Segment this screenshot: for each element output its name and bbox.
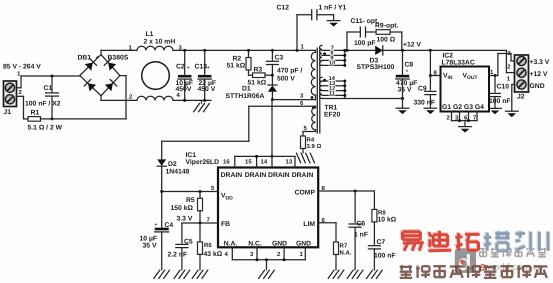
wire VOUT to J2 pin3 — [489, 54, 515, 78]
svg-text:FB: FB — [221, 221, 230, 228]
wire secondary return — [345, 97, 404, 108]
wire secondary to D3 — [345, 49, 375, 51]
watermark subtitle dark red — [400, 265, 412, 278]
svg-text:1N4148: 1N4148 — [166, 169, 190, 176]
svg-text:GND: GND — [272, 241, 287, 248]
text NA NC GND GND — [224, 241, 311, 248]
node C13 bottom — [203, 99, 206, 102]
svg-text:N.A.: N.A. — [224, 241, 238, 248]
node AC1 junction — [51, 75, 54, 78]
resistor R8 — [372, 191, 377, 244]
svg-text:C12: C12 — [277, 5, 290, 12]
svg-text:R6: R6 — [204, 242, 212, 249]
bridge diode bottom-left — [84, 79, 96, 91]
transformer TR1 secondary winding lower — [320, 77, 322, 98]
output connector J2 — [515, 55, 529, 92]
svg-text:R2: R2 — [233, 56, 242, 63]
resistor R1 — [28, 117, 41, 122]
svg-text:2 x 10 mH: 2 x 10 mH — [144, 39, 176, 46]
svg-text:51 kΩ: 51 kΩ — [227, 63, 246, 70]
wire aux pin6 line — [162, 106, 316, 141]
ground R7 — [328, 270, 344, 278]
svg-text:150 kΩ: 150 kΩ — [171, 205, 194, 212]
svg-text:DRAIN: DRAIN — [292, 172, 314, 179]
wire R1 to bridge AC2 — [41, 76, 127, 119]
transformer TR1 secondary winding upper — [320, 45, 322, 65]
svg-text:D1: D1 — [242, 86, 251, 93]
svg-text:15: 15 — [245, 158, 252, 165]
ground R4 — [297, 153, 315, 163]
drain bus top — [235, 155, 295, 168]
earth ground C10 — [489, 108, 502, 114]
wire R3 to clamp node — [265, 74, 272, 76]
capacitor C8 — [396, 50, 410, 98]
ground primary bulk — [194, 100, 210, 111]
input connector J1 — [4, 81, 17, 107]
wire J1 pin2 to R1 — [17, 96, 29, 119]
bridge diode bottom-right — [105, 79, 117, 91]
bridge rectifier DB1 diamond — [80, 55, 120, 96]
node C2 top — [183, 49, 186, 52]
node primary top C12 branch — [296, 49, 299, 52]
capacitor C9 — [425, 50, 436, 107]
svg-text:GND: GND — [296, 241, 311, 248]
snubber C11 R9 — [347, 27, 402, 50]
IC U2 L78L33AC box — [441, 67, 490, 112]
node clamp — [271, 74, 274, 77]
svg-text:C6: C6 — [357, 221, 366, 228]
wire L1 pin4 return — [173, 99, 211, 101]
svg-text:+: + — [207, 65, 210, 71]
svg-text:C4: C4 — [165, 222, 174, 229]
IC2 bottom stubs — [452, 112, 478, 127]
svg-text:1 nF: 1 nF — [354, 232, 368, 239]
svg-text:C2: C2 — [176, 64, 185, 71]
svg-text:L1: L1 — [146, 31, 154, 38]
capacitor C6 — [349, 191, 361, 270]
svg-text:IC2: IC2 — [443, 53, 454, 60]
node snubber left — [346, 49, 349, 52]
inductor L1 top winding — [137, 46, 173, 50]
svg-text:1 nF / Y1: 1 nF / Y1 — [319, 5, 347, 12]
svg-text:C8: C8 — [405, 62, 414, 69]
svg-text:C5: C5 — [184, 238, 193, 245]
svg-text:L78L33AC: L78L33AC — [442, 60, 475, 67]
resistor R2 — [246, 50, 253, 75]
svg-text:C13: C13 — [195, 64, 208, 71]
svg-text:EF20: EF20 — [324, 112, 340, 119]
text DRAIN pins — [221, 172, 314, 179]
svg-text:N.A.: N.A. — [340, 249, 352, 256]
svg-text:500 V: 500 V — [277, 76, 295, 83]
svg-text:C7: C7 — [377, 239, 386, 246]
IC U1 Viper26LD box — [218, 168, 318, 248]
resistor R5 — [198, 192, 203, 224]
earth ground return — [396, 108, 409, 114]
wire L1 pin3 to bus — [173, 49, 297, 51]
ground C5 — [174, 270, 190, 278]
svg-text:330 nF: 330 nF — [414, 100, 436, 107]
bridge diode top-left — [85, 59, 97, 71]
svg-text:J1: J1 — [4, 109, 12, 116]
svg-text:J2: J2 — [517, 94, 525, 101]
svg-text:+12 V: +12 V — [530, 71, 548, 78]
ground C4 — [154, 270, 170, 278]
node R2 top — [247, 49, 250, 52]
node C9 top — [429, 49, 432, 52]
resistor R7 — [334, 242, 339, 270]
svg-text:100 Ω: 100 Ω — [377, 36, 396, 43]
svg-text:R1: R1 — [31, 110, 40, 117]
capacitor C13 — [198, 50, 212, 100]
capacitor C5 — [176, 223, 188, 270]
capacitor C4 — [155, 192, 169, 270]
svg-text:D2: D2 — [168, 161, 177, 168]
transformer core — [317, 48, 320, 133]
svg-text:R9-opt.: R9-opt. — [375, 23, 399, 30]
earth ground J2 — [506, 111, 519, 117]
node C3 top — [271, 49, 274, 52]
svg-text:GND: GND — [530, 83, 545, 90]
diode D3 — [375, 46, 506, 55]
svg-text:100 nF: 100 nF — [374, 253, 396, 260]
inductor L1 core circle — [142, 62, 170, 90]
svg-text:43 kΩ: 43 kΩ — [204, 251, 223, 258]
svg-text:100 nF: 100 nF — [489, 98, 511, 105]
watermark title red — [402, 231, 423, 250]
ground R6 — [192, 270, 208, 278]
diode D1 — [268, 75, 277, 99]
svg-text:Viper26LD: Viper26LD — [186, 159, 220, 166]
diode D2 — [157, 141, 166, 191]
svg-text:+3.3 V: +3.3 V — [530, 59, 550, 66]
svg-text:STTH1R06A: STTH1R06A — [226, 93, 265, 100]
wire FB line — [182, 222, 218, 225]
svg-text:11: 11 — [329, 91, 335, 97]
polarity dot aux — [312, 106, 315, 109]
wire COMP line — [318, 190, 374, 193]
capacitor C7 — [368, 246, 380, 270]
earth ground C9 — [424, 108, 437, 114]
capacitor C10 — [490, 76, 501, 109]
svg-text:2.2 nF: 2.2 nF — [168, 252, 188, 259]
svg-text:+12 V: +12 V — [403, 42, 421, 49]
svg-text:G1 G2 G3 G4: G1 G2 G3 G4 — [442, 104, 484, 111]
wire C9 to VIN — [429, 74, 441, 77]
wire J2 gnd — [512, 85, 515, 111]
svg-text:STPS3H100: STPS3H100 — [357, 64, 395, 71]
watermark group — [400, 230, 549, 278]
svg-text:DB1: DB1 — [78, 55, 92, 62]
svg-text:16: 16 — [223, 158, 230, 165]
wire LIM line — [318, 223, 336, 242]
svg-text:470 pF /: 470 pF / — [277, 68, 302, 75]
eeworld chinese text — [479, 248, 487, 257]
svg-text:R5: R5 — [186, 197, 195, 204]
svg-text:C10: C10 — [497, 84, 510, 91]
svg-text:10: 10 — [329, 61, 335, 67]
svg-text:DRAIN: DRAIN — [268, 172, 290, 179]
wire 12V to J2 pin2 — [506, 50, 514, 72]
capacitor C2 — [178, 50, 192, 100]
wire J1 pin1 to AC line — [17, 76, 80, 88]
svg-text:LIM: LIM — [303, 221, 315, 228]
node C8 top — [401, 49, 404, 52]
svg-text:+: + — [406, 69, 409, 75]
polarity dot primary — [311, 96, 314, 99]
svg-text:COMP: COMP — [295, 190, 316, 197]
earth ground IC2 — [459, 127, 472, 133]
wire bridge plus to L1 pin1 — [101, 50, 137, 54]
svg-text:35 V: 35 V — [398, 87, 412, 94]
transformer TR1 aux winding — [303, 106, 316, 136]
svg-text:100 pF: 100 pF — [354, 40, 376, 47]
svg-text:13: 13 — [286, 158, 293, 165]
secondary lower stubs pins 14 13 12 11 — [322, 79, 346, 99]
svg-text:85 V - 264 V: 85 V - 264 V — [3, 64, 41, 71]
eeworld url text — [479, 260, 543, 274]
svg-text:3.3 V: 3.3 V — [177, 216, 193, 223]
IC1 bottom stubs — [232, 247, 305, 261]
svg-text:TR1: TR1 — [325, 105, 338, 112]
wire drain to primary — [272, 99, 315, 101]
svg-text:35 V: 35 V — [143, 243, 157, 250]
svg-text:10 kΩ: 10 kΩ — [378, 216, 397, 223]
node drain — [271, 98, 274, 101]
svg-text:3.9 Ω: 3.9 Ω — [307, 143, 322, 150]
svg-text:R3: R3 — [254, 67, 263, 74]
capacitor C1 — [46, 76, 59, 119]
capacitor C12 — [297, 10, 334, 51]
node C1 bottom — [51, 117, 54, 120]
resistor R6 — [198, 223, 203, 270]
svg-text:R7: R7 — [340, 242, 348, 249]
node C13 top — [203, 49, 206, 52]
ground IC1 — [259, 260, 275, 279]
svg-text:C3: C3 — [275, 55, 284, 62]
svg-text:10 µF: 10 µF — [140, 236, 158, 243]
inductor L1 bottom winding — [137, 96, 173, 100]
svg-text:DRAIN: DRAIN — [221, 172, 243, 179]
bridge diode top-right — [104, 59, 116, 71]
secondary upper stubs pins 7 8 9 10 — [322, 49, 346, 67]
svg-text:+: + — [96, 56, 100, 62]
ground C7 — [367, 270, 383, 278]
svg-text:C1: C1 — [44, 85, 53, 92]
svg-text:B380S: B380S — [108, 55, 129, 62]
svg-text:+: + — [187, 65, 190, 71]
svg-text:5.1 Ω / 2 W: 5.1 Ω / 2 W — [28, 125, 63, 132]
eeworld logo box — [455, 248, 476, 275]
svg-text:100 nF / X2: 100 nF / X2 — [25, 101, 61, 108]
svg-text:14: 14 — [261, 158, 268, 165]
wire VDD line — [160, 190, 218, 193]
svg-text:+: + — [155, 222, 158, 228]
svg-text:450V: 450V — [176, 86, 192, 93]
wire bridge minus to L1 pin2 — [101, 96, 137, 101]
node C2 bottom — [183, 99, 186, 102]
earth ground C12 — [327, 21, 340, 27]
svg-text:N.C.: N.C. — [248, 241, 262, 248]
svg-text:450 V: 450 V — [198, 86, 216, 93]
svg-text:DRAIN: DRAIN — [245, 172, 267, 179]
svg-text:C9: C9 — [418, 86, 427, 93]
svg-text:R8: R8 — [378, 209, 386, 216]
ground C6 — [347, 270, 363, 278]
capacitor C3 — [266, 50, 278, 75]
resistor R3 — [253, 73, 266, 78]
svg-text:R4: R4 — [307, 137, 315, 144]
wire bus to primary top — [297, 49, 316, 51]
transformer TR1 primary winding — [311, 50, 315, 99]
resistor R4 — [301, 136, 306, 153]
wire drain down to IC1 — [271, 100, 273, 157]
